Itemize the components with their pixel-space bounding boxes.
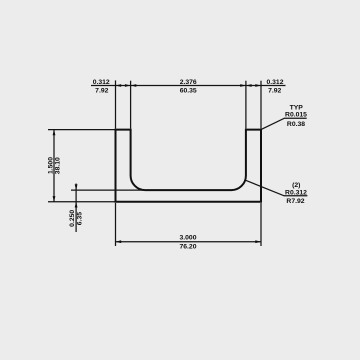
- svg-text:60.35: 60.35: [180, 87, 197, 94]
- top dimension extension line x=115.5: [115, 80, 117, 128]
- arrow right 0.312 right: [255, 84, 261, 87]
- left dimension extension line bottom y=201.8: [48, 201, 115, 203]
- extension line for inner bottom y=190.1: [71, 189, 146, 191]
- arrow 0.250 top pointing down: [75, 184, 78, 190]
- leader for corner radius R0.015: [262, 118, 307, 129]
- svg-text:0.250: 0.250: [69, 210, 76, 227]
- arrow left 0.312 left: [116, 84, 122, 87]
- top dimension extension line x=130.6: [130, 81, 132, 129]
- svg-text:1.500: 1.500: [47, 157, 54, 174]
- svg-text:R7.92: R7.92: [286, 198, 304, 205]
- svg-text:7.92: 7.92: [268, 87, 281, 94]
- arrow 2.376 right: [240, 84, 246, 87]
- svg-text:TYP: TYP: [290, 104, 304, 111]
- left dimension extension line top y=129.6: [48, 129, 115, 131]
- top dimension extension line x=245.9: [245, 81, 247, 129]
- svg-text:0.312: 0.312: [93, 79, 110, 86]
- arrow 1.500 top: [53, 130, 56, 136]
- svg-text:0.312: 0.312: [266, 79, 283, 86]
- svg-text:76.20: 76.20: [179, 244, 196, 251]
- 0.250 dimension line x=76.1: [75, 184, 77, 233]
- top dimension extension line x=261: [260, 81, 262, 129]
- svg-text:R0.312: R0.312: [285, 190, 307, 197]
- svg-text:(2): (2): [292, 182, 300, 189]
- arrow 3.000 right: [255, 240, 261, 243]
- svg-text:R0.015: R0.015: [285, 111, 307, 118]
- channel part outline: [116, 130, 262, 202]
- arrow left 0.312 right: [125, 84, 131, 87]
- bottom dimension line y=241.4: [116, 241, 262, 243]
- arrow 1.500 bottom: [53, 196, 56, 202]
- arrow 3.000 left: [116, 240, 122, 243]
- leader for inner fillet R0.312: [246, 180, 308, 196]
- bottom dimension extension line x=261: [260, 203, 262, 246]
- svg-text:R0.38: R0.38: [287, 121, 305, 128]
- svg-text:2.376: 2.376: [180, 79, 197, 86]
- top dimension line y=85.5: [91, 85, 286, 87]
- svg-text:7.92: 7.92: [95, 87, 108, 94]
- svg-text:6.35: 6.35: [77, 212, 84, 225]
- arrow right 0.312 left: [246, 84, 252, 87]
- arrow 0.250 bottom pointing up: [75, 202, 78, 208]
- svg-text:38.10: 38.10: [55, 157, 62, 174]
- svg-text:3.000: 3.000: [179, 235, 196, 242]
- bottom dimension extension line x=115.5: [115, 203, 117, 246]
- left 1.500 dimension line x=54: [53, 130, 55, 202]
- arrow 2.376 left: [131, 84, 137, 87]
